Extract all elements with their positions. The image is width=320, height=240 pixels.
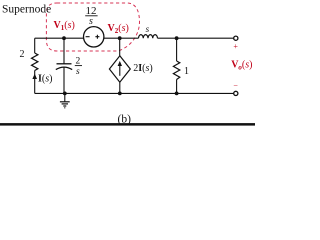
wire top-left: corner to V1 node (35, 37, 64, 39)
current arrow I(s) (32, 74, 37, 79)
capacitor bottom plate (curved) (56, 67, 72, 70)
left branch wire (34, 38, 36, 93)
junction dot (diamond bottom) (118, 92, 122, 96)
svg-text:1: 1 (184, 66, 189, 77)
dependent source arrow (119, 64, 121, 76)
junction dot ground node (63, 92, 67, 96)
dependent source diamond (109, 56, 130, 82)
node V2 dot (118, 36, 122, 40)
inductor L=s coil (139, 35, 158, 39)
svg-text:V2(s): V2(s) (108, 23, 129, 35)
terminal bottom-right (234, 91, 238, 95)
value 12/s (85, 5, 97, 27)
terminal top-right (234, 36, 238, 40)
svg-text:Vo(s): Vo(s) (231, 60, 252, 72)
resistor R=2 zigzag (32, 53, 38, 71)
wire V1 node to source (64, 37, 83, 39)
svg-text:2: 2 (20, 49, 25, 60)
wire inductor to top-right terminal (158, 37, 234, 39)
ground (60, 93, 70, 107)
voltage source minus (86, 36, 90, 38)
resistor R=1 zigzag (173, 61, 179, 80)
svg-text:s: s (146, 24, 150, 34)
bottom wire (35, 92, 234, 94)
capacitor value 2/s (75, 57, 82, 77)
wire source to V2 node to inductor (104, 37, 139, 39)
svg-text:2: 2 (76, 57, 81, 67)
capacitor branch wire upper (63, 38, 65, 64)
svg-text:−: − (233, 82, 238, 91)
supernode dashed boundary (46, 3, 139, 51)
svg-text:+: + (233, 42, 238, 51)
node V1 dot (62, 36, 66, 40)
svg-text:2I(s): 2I(s) (133, 63, 153, 74)
voltage source plus (95, 35, 99, 39)
capacitor top plate (57, 63, 72, 65)
junction dot bottom-right node (175, 92, 179, 96)
bottom rule (0, 123, 255, 126)
wire V2 to diamond (119, 38, 121, 56)
svg-text:s: s (76, 67, 80, 77)
svg-text:V1(s): V1(s) (54, 20, 75, 32)
voltage source circle (84, 27, 104, 47)
capacitor branch wire lower (63, 67, 65, 93)
wire diamond to bottom (119, 82, 121, 93)
svg-text:I(s): I(s) (38, 73, 53, 84)
svg-text:Supernode: Supernode (2, 4, 51, 16)
svg-text:s: s (89, 16, 93, 27)
resistor R=1 branch wires (176, 38, 178, 93)
junction dot top-right node (175, 36, 179, 40)
